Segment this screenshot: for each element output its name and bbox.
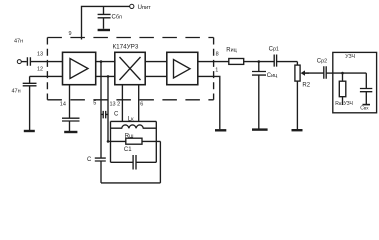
svg-text:Ср1: Ср1 [269,47,279,53]
wire box2-box3 top [145,61,167,63]
amplifier triangle [70,59,88,79]
wire pin 1 [198,76,220,129]
node pin 5 tap [100,60,103,63]
IC boundary dashed box left edge [46,38,48,100]
svg-text:12: 12 [37,66,43,72]
amplifier triangle [174,60,191,79]
wire inside УЗЧ [333,72,367,74]
svg-text:R2: R2 [302,82,310,88]
ground (R2) [292,129,303,131]
svg-text:13: 13 [37,52,43,58]
capacitor 47н input 1 [27,57,30,66]
terminal Uпит [130,4,134,8]
node Rвх junction [341,72,344,75]
ground (pin 14) [64,131,77,133]
capacitor (pin 14 bypass) [62,118,80,131]
tick Свх bottom [363,104,371,106]
wire pin 13 input [31,61,63,63]
svg-text:8: 8 [216,51,219,57]
wire Rиц to Ср1 [244,61,275,63]
svg-text:С1: С1 [124,147,132,153]
node junction Сиц [258,60,261,63]
wire pin 14 [69,85,71,118]
capacitor Ср2 [324,66,326,79]
wire box2-box3 bottom [145,75,167,77]
svg-text:47н: 47н [14,38,23,44]
svg-text:13 2: 13 2 [110,102,121,108]
resistor Rиц [229,59,244,65]
svg-text:С: С [87,157,92,163]
wire Ср2 to УЗЧ [326,72,333,74]
wire Ср1 to R2 [277,62,298,66]
capacitor С series (pins coupling) [101,111,108,119]
svg-text:14: 14 [60,102,66,108]
wire tank top rail [111,120,157,122]
potentiometer R2 [295,65,300,81]
node pin13 to Rш row [107,140,110,143]
capacitor С lower (on pin5 wire) [95,158,106,161]
capacitor С1 [111,155,157,170]
FM detector multiplier block U1b [115,52,145,84]
svg-text:К174УР3: К174УР3 [113,44,139,51]
resistor Rвх УЗЧ [342,73,344,81]
IC boundary dashed box right edge [213,38,215,100]
wire outer right rail [159,141,161,183]
svg-text:6: 6 [140,102,143,108]
wire box1-box2 top [96,61,115,63]
ground (Сбл) [98,29,110,31]
inductor Lк [111,125,157,128]
svg-text:Сбл: Сбл [112,15,122,21]
input terminal [17,60,21,64]
capacitor Ср1 [274,55,276,67]
wire pin 13-2 down to Rш row [107,76,109,141]
svg-text:Ср2: Ср2 [317,59,327,65]
svg-text:1: 1 [215,67,218,73]
capacitor Сиц [252,62,266,129]
IC boundary dashed box top edge [47,37,213,39]
IC boundary dashed box bottom edge [47,99,213,101]
wire output pin 8 [198,61,229,63]
svg-text:УЗЧ: УЗЧ [345,54,355,60]
wire pin 12 input [30,75,63,77]
wire tank bottom [101,182,160,184]
wire box1-box2 bottom [96,75,115,77]
svg-text:Rиц: Rиц [226,48,236,54]
svg-text:Сиц: Сиц [267,73,277,79]
svg-text:Rш: Rш [125,133,134,139]
capacitor 47н input 2 [23,76,37,130]
wire input to cap [21,61,26,63]
wire tank left rail [110,121,112,162]
wire supply riser pin 9 to Uпит [82,6,130,39]
svg-text:С: С [114,111,119,117]
amplifier-limiter block U1a [63,52,96,84]
УЗЧ block [333,52,377,112]
node pin 13 tap [107,75,110,78]
ground (input 2) [24,130,35,132]
resistor Rш [108,140,160,142]
svg-text:47н: 47н [12,89,21,95]
wire pin 2 [121,85,123,122]
capacitor Свх [360,73,372,104]
svg-text:Lк: Lк [128,116,134,122]
capacitor Сбл [98,6,111,28]
wire tank right rail [155,121,157,162]
wire pin 5 down [100,62,102,183]
svg-text:5: 5 [93,101,96,107]
ground (pin 1) [215,129,226,131]
output amplifier block U1c [167,52,198,84]
X symbol [120,57,141,80]
wiper arrow R2 [304,72,309,74]
svg-text:Uпит: Uпит [138,4,152,11]
svg-text:RвхУЗЧ: RвхУЗЧ [335,101,353,107]
svg-text:9: 9 [69,31,72,37]
ground (Сиц) [252,128,268,130]
wire pin 6 [138,85,140,122]
wire wiper to Ср2 [305,72,324,74]
